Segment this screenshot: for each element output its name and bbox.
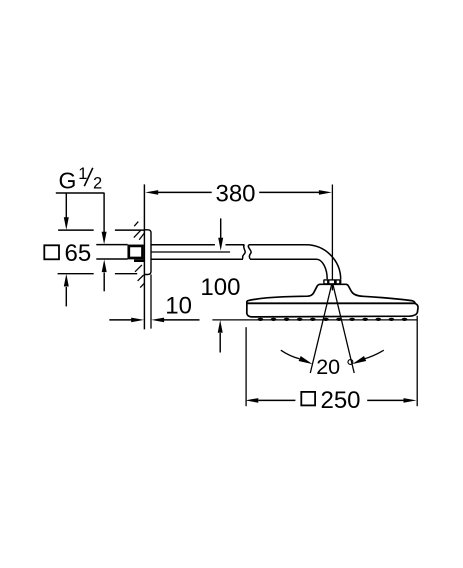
svg-text:250: 250 [320, 387, 360, 414]
svg-text:1: 1 [78, 165, 87, 183]
svg-text:20 °: 20 ° [316, 355, 355, 379]
svg-text:10: 10 [165, 293, 192, 320]
svg-text:65: 65 [65, 240, 92, 267]
svg-text:2: 2 [93, 174, 102, 192]
svg-text:380: 380 [215, 181, 255, 208]
svg-text:100: 100 [200, 274, 240, 301]
svg-text:G: G [59, 167, 77, 193]
